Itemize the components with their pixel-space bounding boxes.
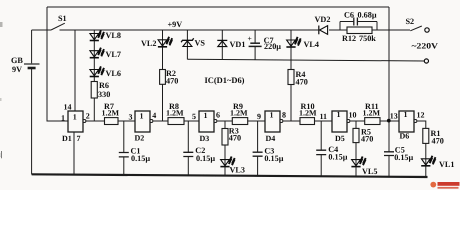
svg-text:0.15µ: 0.15µ bbox=[328, 153, 347, 162]
svg-text:1: 1 bbox=[73, 112, 77, 121]
svg-text:R12: R12 bbox=[342, 34, 356, 43]
svg-text:1: 1 bbox=[404, 110, 408, 119]
svg-text:1.2M: 1.2M bbox=[230, 109, 248, 118]
svg-text:1: 1 bbox=[204, 111, 208, 120]
svg-text:4: 4 bbox=[152, 111, 156, 120]
svg-text:D5: D5 bbox=[335, 134, 345, 143]
svg-text:13: 13 bbox=[390, 112, 398, 121]
svg-text:R6: R6 bbox=[99, 81, 109, 90]
svg-text:470: 470 bbox=[361, 134, 373, 143]
svg-text:D6: D6 bbox=[400, 132, 410, 141]
svg-text:8: 8 bbox=[282, 110, 286, 119]
svg-text:2: 2 bbox=[86, 112, 90, 121]
svg-text:S2: S2 bbox=[406, 17, 415, 26]
svg-text:0.15µ: 0.15µ bbox=[264, 154, 283, 163]
svg-text:D1: D1 bbox=[62, 134, 72, 143]
svg-text:220µ: 220µ bbox=[264, 42, 281, 51]
svg-text:6: 6 bbox=[216, 111, 220, 120]
svg-text:470: 470 bbox=[166, 77, 178, 86]
svg-text:+: + bbox=[248, 34, 252, 43]
svg-text:12: 12 bbox=[417, 110, 425, 119]
svg-text:10: 10 bbox=[349, 110, 357, 119]
svg-text:9: 9 bbox=[257, 112, 261, 121]
svg-text:470: 470 bbox=[229, 134, 241, 143]
svg-text:5: 5 bbox=[192, 112, 196, 121]
svg-text:470: 470 bbox=[432, 137, 444, 146]
svg-text:1: 1 bbox=[61, 113, 65, 122]
svg-text:0.15µ: 0.15µ bbox=[196, 154, 215, 163]
svg-text:D3: D3 bbox=[200, 134, 210, 143]
svg-text:1: 1 bbox=[270, 111, 274, 120]
svg-text:330: 330 bbox=[98, 90, 110, 99]
svg-text:D4: D4 bbox=[266, 134, 276, 143]
svg-text:1.2M: 1.2M bbox=[299, 109, 317, 118]
svg-text:µ|: µ| bbox=[0, 150, 3, 159]
svg-text:11: 11 bbox=[320, 112, 328, 121]
svg-text:VL5: VL5 bbox=[362, 167, 377, 176]
svg-text:+9V: +9V bbox=[168, 20, 183, 29]
svg-text:9V: 9V bbox=[12, 65, 22, 74]
svg-text:VD1: VD1 bbox=[230, 40, 246, 49]
svg-text:VL2: VL2 bbox=[141, 39, 156, 48]
svg-text:VS: VS bbox=[195, 39, 206, 48]
svg-text:VD2: VD2 bbox=[315, 15, 331, 24]
svg-text:470: 470 bbox=[296, 78, 308, 87]
svg-text:7: 7 bbox=[77, 134, 81, 143]
svg-text:1.2M: 1.2M bbox=[102, 109, 120, 118]
svg-text:3: 3 bbox=[129, 113, 133, 122]
svg-text:0.68µ: 0.68µ bbox=[358, 11, 377, 20]
svg-text:IC(D1~D6): IC(D1~D6) bbox=[205, 76, 245, 85]
svg-text:VL1: VL1 bbox=[439, 160, 454, 169]
svg-text:VL8: VL8 bbox=[106, 31, 121, 40]
svg-text:1.2M: 1.2M bbox=[166, 109, 184, 118]
svg-text:VL7: VL7 bbox=[106, 50, 121, 59]
svg-text:~220V: ~220V bbox=[412, 42, 439, 51]
svg-text:1: 1 bbox=[140, 111, 144, 120]
svg-text:VL6: VL6 bbox=[106, 69, 121, 78]
svg-text:GB: GB bbox=[11, 56, 23, 65]
svg-text:VL3: VL3 bbox=[230, 166, 245, 175]
svg-text:1.2M: 1.2M bbox=[363, 109, 381, 118]
svg-text:0.15µ: 0.15µ bbox=[131, 154, 150, 163]
svg-text:VL4: VL4 bbox=[304, 40, 319, 49]
svg-text:D2: D2 bbox=[135, 134, 145, 143]
svg-text:C6: C6 bbox=[344, 11, 354, 20]
svg-text:0.15µ: 0.15µ bbox=[394, 153, 413, 162]
svg-text:1: 1 bbox=[337, 110, 341, 119]
svg-text:750k: 750k bbox=[359, 34, 376, 43]
svg-text:14: 14 bbox=[64, 102, 72, 111]
svg-text:S1: S1 bbox=[58, 14, 67, 23]
